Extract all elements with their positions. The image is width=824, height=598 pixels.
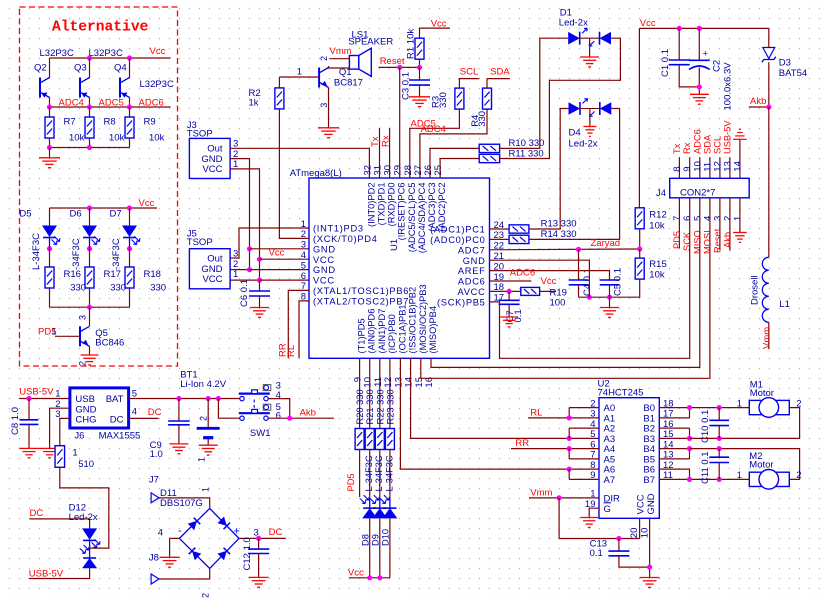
label U1 pin 4 name bbox=[313, 255, 335, 265]
label U1 pin 23 name bbox=[430, 235, 485, 245]
label U1 pin 30 name bbox=[387, 183, 397, 227]
LED D7 bbox=[122, 226, 140, 247]
junction Akb/D3 bbox=[766, 104, 771, 109]
svg-text:R14 330: R14 330 bbox=[541, 229, 577, 240]
resistor R18 bbox=[125, 267, 134, 288]
label R2 bbox=[249, 88, 261, 99]
junction BAT/C9 bbox=[176, 396, 181, 401]
ground (C1 C2) bbox=[690, 94, 709, 104]
label U2 A3 bbox=[604, 434, 616, 445]
resistor R12 bbox=[635, 208, 644, 229]
svg-text:1: 1 bbox=[233, 269, 238, 280]
svg-text:DC: DC bbox=[148, 407, 162, 418]
label U2 GND bbox=[646, 493, 657, 514]
wire GND (pin21) down bbox=[490, 260, 590, 297]
wire ADC rail bbox=[50, 106, 171, 108]
wire J3 VCC bbox=[230, 169, 259, 280]
capacitor C1 bbox=[669, 60, 690, 65]
junction Q4 emitter/R9 bbox=[127, 104, 132, 109]
label R19 value 100 bbox=[550, 298, 566, 309]
wire Vcc rail (phototransistors) bbox=[50, 57, 171, 59]
connector J4 box bbox=[670, 178, 750, 198]
svg-text:BC846: BC846 bbox=[95, 338, 124, 349]
wire bridge minus to gnd bbox=[170, 538, 180, 557]
wire D5 to resistor bbox=[49, 246, 51, 267]
wire PD5 stub (R20) bbox=[359, 450, 361, 498]
wire R7 bottom bbox=[49, 138, 51, 148]
svg-text:+: + bbox=[234, 526, 240, 538]
label D7 bbox=[110, 209, 122, 220]
label J5 VCC bbox=[202, 274, 222, 285]
label U2 B3 bbox=[643, 434, 655, 445]
svg-text:DC: DC bbox=[269, 527, 283, 538]
label M1 pin 2 bbox=[796, 398, 801, 409]
wire B2-B3 join bbox=[689, 428, 691, 438]
label U1 pin 16 name bbox=[428, 306, 438, 354]
junction D10/rail bbox=[377, 575, 382, 580]
svg-text:C11 0.1: C11 0.1 bbox=[700, 451, 711, 484]
svg-text:-34F3C: -34F3C bbox=[111, 238, 122, 270]
svg-text:Motor: Motor bbox=[750, 388, 774, 399]
label U2 G bbox=[604, 504, 611, 515]
junction R8/gnd bbox=[87, 145, 92, 150]
label Vmm (U2) bbox=[530, 487, 552, 498]
label U2 pin 5 number bbox=[590, 429, 595, 440]
junction GND/C13 bbox=[647, 565, 652, 570]
wire C9 bottom lead bbox=[178, 425, 180, 444]
transistor Q5 bbox=[80, 326, 90, 346]
label ADC6 (pin19) bbox=[510, 267, 535, 278]
junction B6/B7 bbox=[687, 477, 692, 482]
label U2 B5 bbox=[643, 455, 655, 466]
wire R23 to D10 bbox=[389, 450, 391, 499]
label TSOP (J5) bbox=[187, 237, 213, 248]
label U2 pin 16 number bbox=[663, 419, 674, 430]
label R8 bbox=[104, 117, 116, 128]
label C9 bbox=[150, 440, 162, 451]
wire C12 top lead bbox=[258, 538, 260, 549]
label ATmega8(L) bbox=[290, 168, 342, 179]
ground (BT1) bbox=[199, 445, 218, 455]
wire D4 center to gnd bbox=[589, 109, 591, 127]
svg-text:Vcc: Vcc bbox=[139, 198, 155, 209]
label C12 1.0 bbox=[242, 537, 253, 570]
svg-text:C12 1.0: C12 1.0 bbox=[242, 537, 253, 570]
svg-text:USB-5V: USB-5V bbox=[29, 568, 64, 579]
wire R4 top bbox=[486, 79, 488, 89]
label U2 A2 bbox=[604, 424, 616, 435]
label U1 pin 6 name bbox=[313, 276, 335, 286]
wire PC0 to R14 bbox=[490, 238, 510, 240]
wire U2 GND pin 10 bbox=[649, 518, 651, 577]
svg-text:MOSI: MOSI bbox=[702, 230, 712, 254]
wire J4 pin 14 stub bbox=[739, 157, 741, 178]
label R21 330 bbox=[365, 389, 375, 424]
label U2 pin 8 number bbox=[590, 460, 595, 471]
svg-text:SDA: SDA bbox=[490, 67, 510, 78]
resistor R15 bbox=[635, 258, 644, 279]
label U2 pin 19 number bbox=[585, 499, 596, 510]
label U1 pin 14 number bbox=[404, 377, 415, 388]
wire C4 bottom bbox=[578, 285, 580, 297]
label R4 bbox=[470, 115, 481, 127]
label J7 bbox=[149, 474, 159, 485]
wire J4 pin 9 stub bbox=[689, 157, 691, 178]
wire C10 top lead bbox=[718, 408, 720, 421]
label J4 pin 10 number bbox=[692, 161, 703, 172]
label R11 330 bbox=[509, 148, 544, 159]
wire R2 top bbox=[278, 77, 280, 88]
capacitor C3 bbox=[409, 80, 430, 85]
label ADC4 (PC4) bbox=[421, 124, 446, 135]
junction Vmm/VCC branch bbox=[557, 495, 562, 500]
svg-text:(XTAL2/TOSC2)PB7: (XTAL2/TOSC2)PB7 bbox=[313, 297, 409, 307]
label Tx bbox=[370, 136, 381, 147]
label J4 net Tx bbox=[672, 143, 682, 154]
label Vcc (D5 rail) bbox=[139, 198, 155, 209]
svg-text:10k: 10k bbox=[109, 133, 125, 144]
svg-text:R1 10k: R1 10k bbox=[406, 29, 417, 59]
wire R3 bottom / ADC5 net bbox=[410, 109, 460, 178]
label U2 A7 bbox=[604, 475, 616, 486]
wire J4 pin7 PD5 stub bbox=[678, 198, 680, 248]
label BT1 pin 2 bbox=[199, 416, 209, 421]
wire J4 pin 13 stub bbox=[729, 157, 731, 178]
label U2 B6 bbox=[643, 465, 655, 476]
label J4 pin 6 number bbox=[682, 216, 693, 221]
junction Reset/R1/C3 bbox=[417, 65, 422, 70]
label R7 value 10k bbox=[69, 133, 85, 144]
label J3 VCC bbox=[202, 164, 222, 175]
junction M1a/C10 bbox=[717, 405, 722, 410]
svg-text:2: 2 bbox=[319, 56, 329, 61]
wire PB7 RL stub bbox=[299, 301, 309, 358]
svg-text:ADC7: ADC7 bbox=[458, 245, 486, 255]
label J6 pin 4 bbox=[132, 406, 137, 417]
label C7 0.1 bbox=[505, 309, 524, 322]
junction B4/B5 bbox=[687, 446, 692, 451]
IC U1 ATmega8 box bbox=[309, 178, 490, 358]
svg-text:1: 1 bbox=[52, 327, 57, 337]
label U1 pin 2 name bbox=[313, 234, 378, 244]
svg-text:(AIN0)PD6: (AIN0)PD6 bbox=[367, 309, 377, 354]
label J4 pin 11 number bbox=[702, 162, 713, 172]
junction C1/C2 gnd bbox=[697, 84, 702, 89]
label J4 pin 9 number bbox=[682, 166, 693, 171]
wire SCK (PB5 to J4) bbox=[490, 198, 690, 358]
ground (alternative) bbox=[39, 158, 60, 168]
wire G to gnd bbox=[589, 508, 599, 517]
label J6 pin 1 bbox=[55, 389, 60, 400]
svg-text:ADC4: ADC4 bbox=[421, 124, 446, 135]
wire U2 pin9 stub bbox=[569, 478, 599, 480]
svg-text:(ADC4/SDA)PC4: (ADC4/SDA)PC4 bbox=[417, 183, 427, 254]
svg-text:Drosell: Drosell bbox=[750, 275, 761, 305]
svg-text:Zaryad: Zaryad bbox=[591, 238, 621, 249]
label J4 pin 7 number bbox=[672, 216, 683, 221]
svg-text:J8: J8 bbox=[149, 553, 159, 564]
svg-text:2: 2 bbox=[796, 470, 801, 481]
label RL (chip) bbox=[286, 345, 297, 357]
label SW1 pin 3 bbox=[276, 380, 281, 391]
svg-text:L32P3C: L32P3C bbox=[40, 48, 74, 59]
svg-text:(!RESET)PC6: (!RESET)PC6 bbox=[397, 183, 407, 241]
wire C6 to gnd bbox=[259, 296, 261, 308]
label bridge plus bbox=[234, 526, 240, 538]
resistor R11 bbox=[479, 154, 499, 162]
svg-text:R16: R16 bbox=[64, 269, 81, 280]
ground (C4 C5) bbox=[600, 308, 619, 318]
wire Vcc to R1 bbox=[420, 28, 450, 38]
resistor R7 bbox=[45, 117, 54, 138]
label U1 pin 20 name bbox=[458, 266, 486, 276]
svg-text:SCL: SCL bbox=[460, 67, 478, 78]
wire Vmm to DIR bbox=[529, 497, 599, 499]
wire GND net to pin5 bbox=[250, 269, 310, 271]
resistor R16 bbox=[45, 267, 54, 288]
svg-text:BAT: BAT bbox=[106, 394, 124, 405]
wire PB6 RR stub bbox=[288, 290, 309, 358]
label M1 bbox=[750, 379, 763, 390]
wire Rx stub (PD0) bbox=[389, 128, 391, 178]
label Q5 pin 1 bbox=[52, 327, 57, 337]
label U1 pin 28 name bbox=[407, 183, 417, 253]
svg-text:Motor: Motor bbox=[749, 459, 773, 470]
svg-text:DC: DC bbox=[110, 415, 124, 426]
svg-text:DC: DC bbox=[30, 508, 44, 519]
svg-text:1: 1 bbox=[201, 487, 211, 492]
svg-text:R21 330: R21 330 bbox=[365, 389, 375, 424]
label J4 net ADC6 bbox=[692, 129, 702, 154]
label U1 pin 8 number bbox=[301, 292, 306, 303]
svg-text:(INT0)PD2: (INT0)PD2 bbox=[366, 183, 376, 227]
label BT1 pin 1 bbox=[197, 457, 207, 462]
junction Zaryad/C4 bbox=[576, 247, 581, 252]
label U1 pin 12 number bbox=[383, 377, 394, 388]
svg-text:R7: R7 bbox=[64, 117, 76, 128]
wire B0 out bbox=[659, 407, 749, 409]
label PD5 (R20) bbox=[346, 473, 356, 491]
label J3 bbox=[187, 120, 197, 131]
svg-text:R22 330: R22 330 bbox=[375, 389, 385, 424]
capacitor C8 bbox=[20, 420, 39, 425]
junction D7 anode bbox=[127, 205, 132, 210]
label R9 bbox=[144, 117, 156, 128]
label speaker pin 2 bbox=[319, 56, 329, 61]
wire J3 GND bbox=[230, 159, 249, 270]
junction Vcc/C2 bbox=[697, 26, 702, 31]
svg-text:A7: A7 bbox=[604, 475, 616, 486]
label U1 pin 30 number bbox=[383, 165, 394, 176]
label U2 pin 14 number bbox=[663, 439, 674, 450]
svg-text:4: 4 bbox=[132, 406, 137, 417]
svg-text:SCK: SCK bbox=[682, 231, 692, 251]
svg-text:RR: RR bbox=[515, 438, 529, 449]
label Vmm (L1) bbox=[762, 327, 773, 349]
wire pin9 to R20 bbox=[359, 358, 361, 428]
resistor R13 bbox=[509, 225, 529, 233]
svg-text:Akb: Akb bbox=[750, 96, 766, 107]
wire ADC6 stub bbox=[490, 280, 532, 282]
label U2 B0 bbox=[643, 403, 655, 414]
wire USB-5V to J6 bbox=[19, 398, 69, 400]
resistor R8 bbox=[85, 117, 94, 138]
label U2 A0 bbox=[604, 403, 616, 414]
wire R19 to Vcc stub bbox=[540, 290, 557, 292]
svg-text:1: 1 bbox=[737, 470, 742, 481]
wire Vmm down to VCC pin bbox=[559, 498, 640, 539]
connector J3 box bbox=[189, 138, 230, 178]
svg-text:SPEAKER: SPEAKER bbox=[348, 37, 393, 48]
svg-text:C3 0.1: C3 0.1 bbox=[401, 72, 412, 100]
wire J4 pin2 Akb stub bbox=[729, 198, 731, 251]
wire C13 top lead bbox=[618, 539, 620, 552]
svg-text:510: 510 bbox=[78, 459, 94, 470]
svg-text:ADC6: ADC6 bbox=[692, 129, 702, 154]
ground (D4) bbox=[583, 127, 596, 137]
wire B6-B7 join bbox=[689, 469, 691, 479]
svg-text:Vcc: Vcc bbox=[269, 248, 285, 259]
wire Q1 base bbox=[279, 76, 319, 78]
label SCK (J4) bbox=[682, 231, 692, 251]
svg-text:D3: D3 bbox=[779, 58, 791, 69]
label R7 bbox=[64, 117, 76, 128]
wire D3 cathode to Akb bbox=[768, 62, 770, 107]
capacitor C10 bbox=[709, 420, 729, 425]
svg-text:PD5: PD5 bbox=[672, 231, 682, 249]
junction gnd rail/C5 bbox=[607, 295, 612, 300]
svg-text:3: 3 bbox=[78, 315, 88, 320]
svg-text:Vcc: Vcc bbox=[348, 567, 364, 578]
svg-text:100: 100 bbox=[550, 298, 566, 309]
junction RL/pins2-3 bbox=[567, 415, 572, 420]
label U1 pin 17 number bbox=[494, 293, 505, 304]
svg-text:ADC6: ADC6 bbox=[510, 267, 535, 278]
svg-text:Li-Ion 4.2V: Li-Ion 4.2V bbox=[180, 379, 227, 390]
wire B4 out bbox=[659, 448, 689, 450]
label U2 A1 bbox=[604, 414, 616, 425]
svg-text:J6: J6 bbox=[74, 431, 84, 442]
label U1 pin 26 number bbox=[423, 165, 434, 176]
label J4 net SDA bbox=[702, 134, 712, 154]
wire R4 bottom / ADC4 net bbox=[420, 109, 487, 178]
label U1 pin 10 number bbox=[363, 377, 374, 388]
junction gnd rail/pin21 bbox=[587, 295, 592, 300]
label U2 pin 13 number bbox=[663, 450, 674, 461]
svg-text:12: 12 bbox=[383, 377, 394, 388]
label SPEAKER bbox=[348, 37, 393, 48]
svg-text:VCC: VCC bbox=[313, 276, 335, 286]
LED D10 bbox=[380, 495, 397, 518]
label Akb (SW1) bbox=[300, 408, 316, 419]
wire D6 to resistor bbox=[89, 246, 91, 267]
svg-text:+: + bbox=[703, 49, 709, 60]
wire R18 bottom bbox=[129, 288, 131, 307]
svg-text:1k: 1k bbox=[249, 97, 259, 108]
svg-text:USB-5V: USB-5V bbox=[19, 386, 54, 397]
label C3 0.1 bbox=[401, 72, 412, 100]
label R20 330 bbox=[355, 389, 365, 424]
label C6 0.1 bbox=[239, 279, 250, 307]
label J5 pin 2 bbox=[233, 259, 238, 270]
wire D7 anode bbox=[129, 208, 131, 226]
label SW1 bbox=[250, 428, 271, 439]
label U1 pin 23 number bbox=[494, 230, 505, 241]
label U1 pin 22 name bbox=[458, 245, 486, 255]
svg-text:SW1: SW1 bbox=[250, 428, 271, 439]
label SW1 pin 4 bbox=[276, 390, 281, 401]
label U1 pin 13 number bbox=[393, 377, 404, 388]
label R10 330 bbox=[509, 138, 545, 149]
svg-text:J7: J7 bbox=[149, 474, 159, 485]
LED D8 bbox=[360, 495, 377, 518]
bridge diode SW bbox=[189, 548, 202, 561]
svg-text:SDA: SDA bbox=[702, 134, 712, 154]
label Q3 bbox=[74, 63, 87, 74]
wire Q5 base bbox=[55, 335, 80, 337]
label U1 pin 6 number bbox=[301, 271, 306, 282]
svg-text:330: 330 bbox=[150, 283, 166, 294]
wire R1 bottom bbox=[419, 59, 421, 67]
label U1 pin 17 name bbox=[437, 298, 485, 308]
ground (Q1) bbox=[318, 128, 339, 138]
ground (C7) bbox=[500, 317, 518, 327]
wire D3 anode bbox=[768, 28, 770, 47]
label C4 0.1 bbox=[582, 268, 593, 296]
label U1 pin 19 name bbox=[458, 277, 486, 287]
junction M1b/C10 bbox=[717, 436, 722, 441]
label L-34F3C (D5) bbox=[31, 233, 42, 270]
wire B6 out bbox=[659, 468, 689, 470]
label Led-2x (D12) bbox=[69, 512, 98, 523]
wire PC2 to R11 bbox=[440, 159, 479, 179]
label U2 A4 bbox=[604, 444, 616, 455]
svg-text:RL: RL bbox=[286, 345, 297, 357]
transistor Q3 bbox=[80, 78, 90, 98]
label J3 pin 3 bbox=[233, 139, 238, 150]
junction A6/A7 pair bbox=[567, 467, 572, 472]
svg-text:TSOP: TSOP bbox=[187, 237, 213, 248]
wire C8 top lead bbox=[28, 399, 30, 420]
label U2 pin 7 number bbox=[590, 450, 595, 461]
wire J4 pin 11 stub bbox=[709, 157, 711, 178]
IC U2 74HCT245 box bbox=[599, 398, 659, 519]
ground (J8) bbox=[160, 557, 180, 567]
junction B0/B1 bbox=[687, 405, 692, 410]
ground (J4 pin1) bbox=[733, 233, 747, 243]
label U2 pin 9 number bbox=[590, 470, 595, 481]
label U1 bbox=[389, 239, 400, 251]
label U1 pin 9 number bbox=[353, 377, 364, 382]
label U2 pin 6 number bbox=[590, 439, 595, 450]
wire PC6 to Reset bbox=[399, 67, 401, 178]
wire R7 top bbox=[49, 107, 51, 117]
label J4 pin 2 number bbox=[722, 216, 733, 221]
speaker LS1 symbol bbox=[349, 48, 371, 76]
label Vcc (top right) bbox=[640, 18, 656, 29]
wire J4 pin 8 stub bbox=[678, 157, 680, 178]
svg-text:1: 1 bbox=[737, 398, 742, 409]
wire bridge plus to DC bbox=[239, 537, 286, 539]
bridge diode NW bbox=[188, 518, 201, 531]
label SW1 pin 6 bbox=[276, 411, 281, 422]
label U1 pin 1 name bbox=[313, 224, 364, 234]
label J6 bbox=[74, 431, 84, 442]
svg-text:BAT54: BAT54 bbox=[779, 68, 807, 79]
wire D1 right to R11 bbox=[500, 38, 621, 158]
label R9 value 10k bbox=[149, 133, 165, 144]
label D8 bbox=[361, 534, 371, 546]
